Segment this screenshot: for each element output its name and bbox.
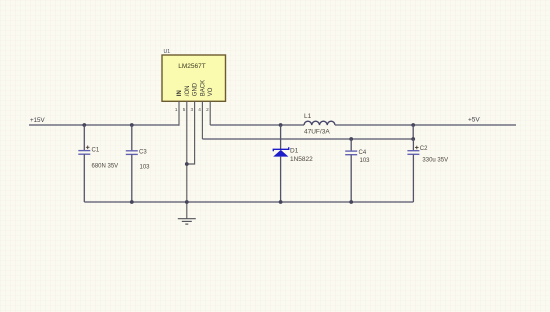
pin 2 VO (209, 101, 211, 125)
svg-text:47UF/3A: 47UF/3A (304, 129, 330, 136)
capacitor C2 (407, 139, 419, 202)
diode D1 (273, 125, 289, 202)
svg-text:330u 35V: 330u 35V (422, 158, 448, 164)
capacitor C3 (126, 125, 138, 202)
svg-text:3: 3 (190, 107, 193, 112)
svg-text:IN: IN (177, 90, 183, 96)
ground (178, 219, 196, 224)
junction C4 bottom (349, 200, 353, 204)
pin 1 IN (178, 101, 180, 126)
svg-text:680N 35V: 680N 35V (92, 164, 119, 170)
svg-text:C4: C4 (359, 150, 367, 156)
svg-text:1: 1 (175, 107, 178, 112)
svg-text:1N5822: 1N5822 (290, 156, 313, 163)
inductor L1 (304, 121, 335, 125)
wire VO to inductor (210, 124, 304, 126)
wire input rail (29, 124, 179, 126)
svg-text:LM2567T: LM2567T (178, 63, 205, 70)
junction D1 top (279, 123, 283, 127)
svg-text:GND: GND (193, 82, 199, 96)
svg-text:2: 2 (206, 107, 209, 112)
svg-text:4: 4 (198, 107, 201, 112)
wire inductor to output (335, 124, 516, 126)
svg-text:C1: C1 (92, 148, 100, 154)
wire ground rail (84, 201, 413, 203)
pin 5 /ON (186, 101, 188, 219)
svg-text:+5V: +5V (468, 117, 480, 124)
wire feedback (202, 125, 413, 139)
capacitor C4 (345, 139, 357, 202)
svg-text:C2: C2 (420, 146, 428, 152)
junction ground stem (185, 200, 189, 204)
svg-text:VO: VO (208, 87, 214, 96)
svg-text:BACK: BACK (200, 80, 206, 96)
pin 3 GND (187, 101, 195, 164)
svg-text:D1: D1 (290, 147, 299, 154)
capacitor C1 (78, 125, 90, 202)
junction D1 bottom (279, 200, 283, 204)
svg-text:/ON: /ON (185, 86, 191, 97)
junction C1 top (82, 123, 86, 127)
junction C4 top (349, 137, 353, 141)
junction C3 top (130, 123, 134, 127)
svg-text:L1: L1 (304, 113, 312, 120)
svg-text:103: 103 (360, 158, 371, 164)
IC U1 box (162, 55, 226, 101)
svg-text:+15V: +15V (30, 117, 45, 124)
svg-text:103: 103 (140, 165, 151, 171)
junction pin3-pin5 (185, 162, 189, 166)
svg-text:U1: U1 (164, 49, 171, 55)
junction C3 bottom (130, 200, 134, 204)
svg-text:5: 5 (183, 107, 186, 112)
junction C2 top (411, 137, 415, 141)
svg-text:C3: C3 (139, 150, 147, 156)
junction feedback top (411, 123, 415, 127)
pin 4 BACK (201, 101, 203, 139)
